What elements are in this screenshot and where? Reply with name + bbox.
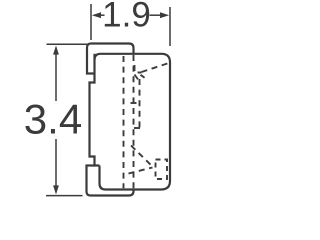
hidden diagonal lower xyxy=(131,146,153,168)
hidden contact square xyxy=(156,160,168,180)
dim 3.4 bottom extension line xyxy=(46,195,83,197)
dim 1.9 left extension line xyxy=(90,4,92,40)
dim 1.9 right arrow xyxy=(150,14,163,16)
hidden diagonal lower2 xyxy=(129,168,153,174)
hidden line L1 xyxy=(123,56,125,188)
back plate bottom tab xyxy=(87,166,134,196)
svg-text:1.9: 1.9 xyxy=(102,0,151,35)
dim 3.4 top extension line xyxy=(47,43,88,45)
hidden slot top xyxy=(131,102,142,104)
hidden slot bottom xyxy=(134,127,140,129)
hidden diagonal upper xyxy=(142,63,170,72)
hidden diagonal short2 xyxy=(141,75,147,80)
dim 3.4 line upper xyxy=(55,53,57,101)
hidden diagonal short xyxy=(135,75,140,82)
dim 3.4 line lower xyxy=(55,139,57,187)
dim 1.9 right extension line xyxy=(169,7,171,46)
back plate outline xyxy=(87,44,134,74)
hidden line L2 (back plate right edge) xyxy=(133,55,135,188)
dim 1.9 left arrow xyxy=(98,14,105,16)
hidden spring bend L xyxy=(135,65,142,73)
svg-text:3.4: 3.4 xyxy=(24,96,82,143)
main body outline xyxy=(90,54,171,190)
hidden slot vertical xyxy=(139,79,141,128)
